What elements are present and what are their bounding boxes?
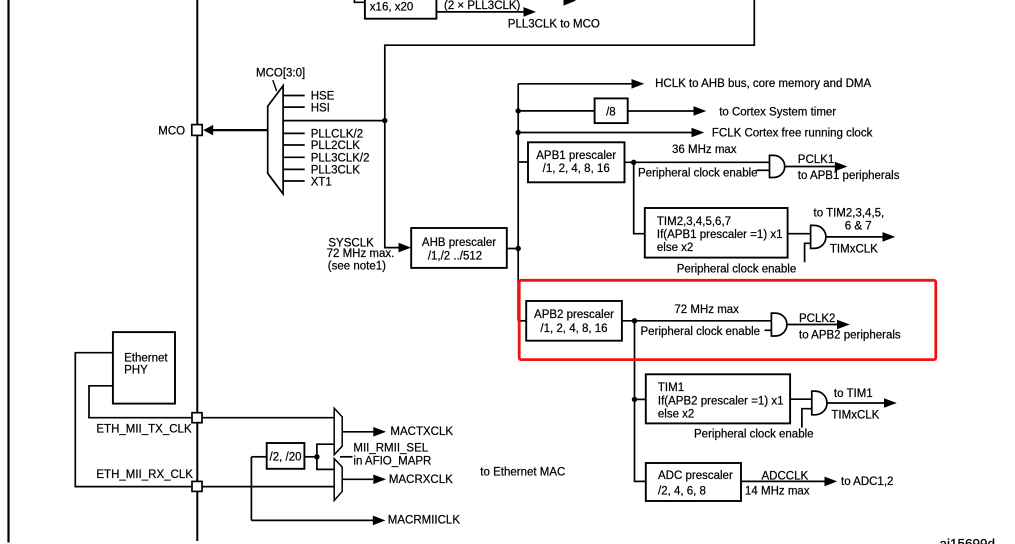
wire ETH_MII_TX_CLK to TX mux	[202, 417, 334, 419]
svg-text:6 & 7: 6 & 7	[845, 220, 872, 232]
svg-text:/8: /8	[606, 107, 616, 119]
wire FCLK	[518, 132, 693, 134]
node TIM1 branch junction	[632, 397, 637, 402]
arrowhead MACTXCLK	[373, 427, 386, 437]
wire ETH_MII_RX_CLK to RX mux	[202, 486, 334, 488]
arrowhead TIMxCLK (TIM1)	[884, 398, 897, 408]
svg-text:ADCCLK: ADCCLK	[762, 470, 809, 482]
mux MACRXCLK selector	[334, 459, 342, 501]
wire MCO output	[212, 129, 268, 131]
wire PHY to ETH_MII_RX_CLK pin	[75, 353, 192, 487]
wire PLL3CLK input stub	[283, 168, 305, 170]
svg-text:PHY: PHY	[124, 365, 148, 377]
svg-text:/1, 2, 4, 8, 16: /1, 2, 4, 8, 16	[543, 163, 610, 175]
svg-text:XT1: XT1	[311, 176, 332, 188]
arrowhead ADCCLK	[825, 477, 838, 487]
wire PLL3CLK to MCO arrow	[436, 11, 525, 13]
wire PCLK1 output	[785, 166, 836, 168]
wire into PLL3 multiplier box	[354, 0, 365, 2]
partial arrowhead top right	[564, 0, 577, 6]
svg-text:PLLCLK/2: PLLCLK/2	[311, 129, 363, 141]
TIM1 multiplier block	[646, 374, 790, 423]
divider /8 block	[595, 98, 628, 123]
wire APB1 prescaler input	[518, 161, 528, 163]
svg-text:HSI: HSI	[311, 102, 330, 114]
svg-text:Peripheral clock enable: Peripheral clock enable	[677, 264, 797, 276]
wire MACTXCLK output	[342, 431, 374, 433]
svg-text:PCLK1: PCLK1	[798, 154, 834, 166]
svg-text:14 MHz max: 14 MHz max	[745, 485, 810, 497]
svg-text:/1,/2 ../512: /1,/2 ../512	[428, 251, 482, 263]
svg-text:72 MHz max.: 72 MHz max.	[327, 248, 395, 260]
highlight red box around APB2 prescaler row	[519, 280, 936, 359]
svg-text:to ADC1,2: to ADC1,2	[841, 476, 893, 488]
svg-text:to APB2 peripherals: to APB2 peripherals	[799, 330, 901, 342]
node junction SYSCLK to MCO mux	[382, 118, 387, 123]
wire MII_RMII_SEL select	[340, 456, 353, 458]
node /2,/20 output junction	[314, 454, 319, 459]
pin ETH_MII_RX_CLK pad square	[192, 481, 202, 491]
svg-text:PLL3CLK: PLL3CLK	[311, 164, 361, 176]
svg-text:/2, 4, 6, 8: /2, 4, 6, 8	[658, 486, 706, 498]
svg-text:ai15699d: ai15699d	[940, 537, 996, 544]
wire APB2 prescaler output to PCLK2 gate	[622, 320, 772, 322]
svg-text:else x2: else x2	[658, 409, 694, 421]
svg-text:If(APB2 prescaler =1) x1: If(APB2 prescaler =1) x1	[658, 395, 784, 407]
wire PHY to ETH_MII_TX_CLK pin	[89, 386, 192, 418]
gate TIM1 TIMxCLK AND	[812, 391, 827, 415]
svg-text:MCO: MCO	[158, 126, 185, 138]
TIM2,3,4,5,6,7 multiplier block	[645, 208, 788, 258]
PLL3 multiplier box x16,x20 (top-clipped)	[365, 0, 437, 19]
svg-text:APB1 prescaler: APB1 prescaler	[536, 150, 616, 162]
APB1 prescaler block	[528, 142, 625, 182]
svg-text:to APB1 peripherals: to APB1 peripherals	[798, 170, 900, 182]
wire MACRMIICLK output	[251, 519, 373, 521]
svg-text:TIM2,3,4,5,6,7: TIM2,3,4,5,6,7	[657, 216, 731, 228]
wire ADCCLK output	[741, 480, 826, 482]
arrowhead TIMxCLK (APB1 timers)	[883, 232, 896, 242]
svg-text:to TIM1: to TIM1	[834, 388, 873, 400]
svg-text:PCLK2: PCLK2	[799, 313, 835, 325]
node HCLK bus junction	[516, 246, 521, 251]
svg-text:AHB prescaler: AHB prescaler	[422, 237, 496, 249]
svg-text:/2, /20: /2, /20	[270, 451, 302, 463]
AHB prescaler block	[411, 228, 507, 268]
wire PLL3CLK/2 input stub	[283, 156, 305, 158]
wire /8 output to Cortex system timer	[628, 110, 695, 112]
svg-text:x16, x20: x16, x20	[370, 2, 413, 14]
pin MCO pad square	[192, 125, 202, 136]
svg-text:to TIM2,3,4,5,: to TIM2,3,4,5,	[814, 208, 885, 220]
arrowhead FCLK	[692, 128, 705, 138]
svg-text:Peripheral clock enable: Peripheral clock enable	[641, 326, 761, 338]
arrowhead MACRXCLK	[373, 475, 386, 485]
wire TIMxCLK output (TIM1)	[827, 402, 888, 404]
divider /2,/20 block	[267, 443, 305, 469]
svg-text:PLL3CLK to MCO: PLL3CLK to MCO	[508, 19, 600, 31]
wire enable into TIMx gate (APB1)	[805, 243, 811, 262]
svg-text:Peripheral clock enable: Peripheral clock enable	[694, 429, 814, 441]
wire HCLK vertical bus	[517, 84, 519, 321]
svg-text:PLL3CLK/2: PLL3CLK/2	[311, 152, 370, 164]
svg-text:in AFIO_MAPR: in AFIO_MAPR	[353, 455, 431, 467]
svg-text:72 MHz max: 72 MHz max	[674, 304, 739, 316]
svg-text:MACRMIICLK: MACRMIICLK	[388, 515, 461, 527]
svg-text:HSE: HSE	[311, 91, 335, 103]
svg-text:FCLK Cortex free running clock: FCLK Cortex free running clock	[712, 127, 873, 139]
wire PLLCLK/2 input stub	[283, 132, 305, 134]
wire SYSCLK from top to AHB prescaler	[385, 0, 755, 248]
wire to TX mux lower input	[317, 444, 334, 457]
svg-text:MCO[3:0]: MCO[3:0]	[256, 67, 305, 79]
arrowhead PLL3CLK to MCO	[524, 7, 537, 17]
APB2 prescaler block	[526, 301, 622, 341]
wire PCLK2 output	[787, 324, 841, 326]
figure frame left border	[7, 0, 9, 543]
arrowhead PCLK2	[837, 320, 850, 330]
arrowhead MCO output (points left)	[203, 125, 213, 135]
svg-text:TIMxCLK: TIMxCLK	[830, 244, 878, 256]
wire ADC prescaler input	[634, 480, 646, 482]
arrowhead SYSCLK into AHB prescaler	[399, 243, 412, 253]
wire /2,/20 output	[304, 456, 317, 458]
svg-text:If(APB1 prescaler =1) x1: If(APB1 prescaler =1) x1	[657, 229, 783, 241]
svg-text:to Ethernet MAC: to Ethernet MAC	[480, 466, 565, 478]
svg-text:to Cortex System timer: to Cortex System timer	[719, 107, 836, 119]
arrowhead Cortex system timer	[694, 106, 707, 116]
svg-text:PLL2CLK: PLL2CLK	[311, 140, 361, 152]
wire TIM1 output to gate	[790, 398, 812, 400]
wire APB1 prescaler output to PCLK1 gate	[625, 161, 770, 163]
wire enable into TIM1 gate	[802, 409, 812, 428]
wire to RX mux upper input	[317, 457, 334, 470]
wire HCLK to AHB bus	[518, 83, 633, 85]
wire HSI input stub	[283, 106, 305, 108]
wire APB1 to TIM2-7 block	[634, 162, 645, 233]
gate PCLK1 AND	[770, 155, 785, 177]
svg-text:(2 × PLL3CLK): (2 × PLL3CLK)	[444, 0, 521, 12]
svg-text:36 MHz max: 36 MHz max	[672, 144, 737, 156]
wire MCO mux SYSCLK input	[283, 120, 385, 122]
wire HSE input stub	[283, 95, 305, 97]
wire TIM1 input	[635, 398, 646, 400]
gate PCLK2 AND	[771, 313, 787, 336]
wire MACRXCLK output	[342, 478, 373, 480]
svg-text:ETH_MII_RX_CLK: ETH_MII_RX_CLK	[96, 469, 193, 481]
svg-text:HCLK to AHB bus, core memory a: HCLK to AHB bus, core memory and DMA	[655, 78, 871, 90]
wire enable into PCLK2 gate	[765, 329, 772, 331]
chip boundary line	[196, 0, 198, 541]
svg-text:MII_RMII_SEL: MII_RMII_SEL	[353, 443, 428, 455]
mux MACTXCLK selector	[334, 408, 342, 455]
ADC prescaler block	[646, 463, 741, 501]
svg-text:else x2: else x2	[657, 242, 693, 254]
arrowhead HCLK	[632, 79, 645, 89]
svg-text:MACTXCLK: MACTXCLK	[390, 426, 453, 438]
wire into /8 divider	[518, 110, 594, 112]
svg-text:ETH_MII_TX_CLK: ETH_MII_TX_CLK	[96, 423, 192, 435]
wire RX tap down to /2,/20 and MACRMIICLK	[250, 457, 252, 521]
wire into /2,/20 divider	[251, 456, 266, 458]
node APB1 output junction	[631, 160, 636, 165]
svg-text:TIMxCLK: TIMxCLK	[831, 410, 879, 422]
wire PLL2CLK input stub	[283, 144, 305, 146]
svg-text:Peripheral clock enable: Peripheral clock enable	[638, 168, 758, 180]
svg-text:MACRXCLK: MACRXCLK	[389, 474, 453, 486]
wire XT1 input stub	[283, 180, 305, 182]
Ethernet PHY block	[113, 332, 175, 404]
mux MCO output selector	[268, 86, 283, 194]
svg-text:TIM1: TIM1	[658, 382, 684, 394]
wire APB2 down bus to TIM1 and ADC	[634, 321, 636, 482]
wire APB2 prescaler input	[518, 320, 526, 322]
svg-text:(see note1): (see note1)	[328, 261, 386, 273]
arrowhead MACRMIICLK	[373, 516, 386, 526]
wire AHB prescaler output	[507, 248, 518, 250]
svg-text:ADC prescaler: ADC prescaler	[658, 470, 733, 482]
node /8 branch junction	[516, 108, 521, 113]
node FCLK branch junction	[516, 130, 521, 135]
gate TIMxCLK AND (APB1 timers)	[811, 225, 826, 248]
pin ETH_MII_TX_CLK pad square	[192, 413, 202, 423]
arrowhead PCLK1	[835, 162, 848, 172]
node APB2 output junction	[632, 318, 637, 323]
wire enable into PCLK1 gate	[757, 169, 770, 171]
wire TIMxCLK output (APB1 timers)	[826, 236, 887, 238]
svg-text:Ethernet: Ethernet	[124, 353, 168, 365]
svg-text:APB2 prescaler: APB2 prescaler	[534, 309, 614, 321]
wire MCO[3:0] select pointer	[273, 80, 277, 91]
svg-text:/1, 2, 4, 8, 16: /1, 2, 4, 8, 16	[540, 323, 607, 335]
wire TIM2-7 output to gate	[788, 233, 811, 235]
